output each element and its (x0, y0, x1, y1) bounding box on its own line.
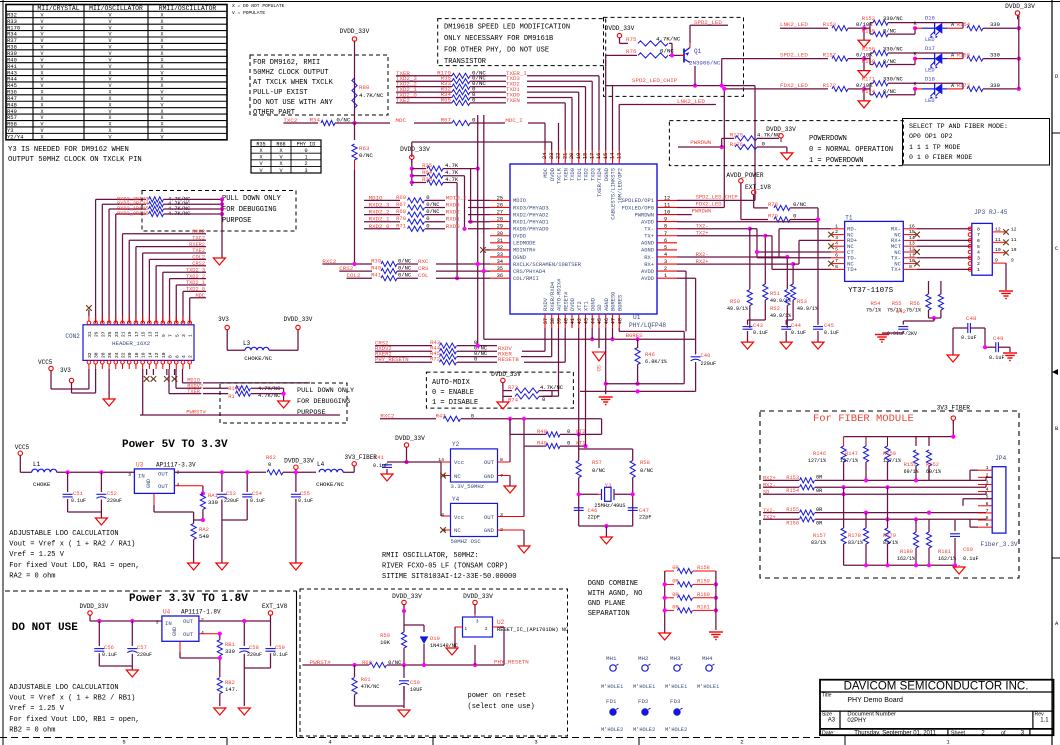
note box PULL DOWN ONLY 1 (142, 191, 296, 232)
svg-text:RA2: RA2 (199, 526, 209, 533)
svg-text:36: 36 (497, 273, 503, 279)
svg-text:CHOKE: CHOKE (33, 481, 51, 488)
svg-text:PURPOSE: PURPOSE (297, 409, 326, 417)
svg-text:AVDD_POWER: AVDD_POWER (726, 172, 763, 179)
pin 31 LEDMODE (490, 238, 536, 247)
ground left (659, 633, 671, 640)
svg-text:147.: 147. (225, 686, 238, 693)
resistor R154 330 (967, 26, 983, 31)
svg-text:DGND: DGND (513, 255, 526, 261)
svg-text:AP1117-3.3V: AP1117-3.3V (156, 462, 196, 469)
svg-text:D19: D19 (430, 635, 440, 642)
svg-text:330: 330 (208, 499, 218, 506)
svg-text:DVDD_33V: DVDD_33V (605, 25, 635, 32)
resistor R152 330/NC upper (864, 27, 870, 29)
svg-text:R70: R70 (396, 215, 406, 222)
pin 3 RD+ (831, 235, 858, 244)
svg-text:4: 4 (177, 482, 180, 488)
pin 4 (968, 250, 980, 256)
svg-text:22pF: 22pF (639, 515, 651, 521)
svg-text:DVDD_33V: DVDD_33V (340, 28, 370, 35)
capacitor C40 220uF (695, 339, 697, 354)
svg-text:LED: LED (925, 37, 935, 43)
svg-text:0: 0 (542, 396, 545, 403)
resistor RA2 549 (191, 523, 196, 539)
svg-text:RXDV: RXDV (543, 297, 549, 311)
x mark MDINTR# (480, 247, 486, 253)
svg-text:0R: 0R (672, 579, 679, 585)
svg-text:RXD0/PHYAD0: RXD0/PHYAD0 (513, 226, 549, 232)
wire pin47 BGRESG (612, 328, 614, 339)
pin 3 (181, 316, 187, 337)
svg-text:M'HOLE2: M'HOLE2 (601, 727, 623, 733)
svg-text:DAVICOM SEMICONDUCTOR INC.: DAVICOM SEMICONDUCTOR INC. (844, 681, 1029, 693)
svg-text:YT37-1107S: YT37-1107S (848, 287, 894, 295)
wire pin14 to SPD2_LED_CHIP (612, 86, 614, 150)
crystal circuit Y3 (574, 435, 654, 545)
wire Y4 gnd ground (497, 529, 524, 531)
pin 33 DGND (490, 252, 526, 261)
svg-text:25: 25 (497, 195, 503, 201)
rows CRS2 RXDV2 RXER2 PHY_RESETN (375, 339, 497, 348)
svg-text:ADJUSTABLE LDO CALCULATION: ADJUSTABLE LDO CALCULATION (9, 530, 118, 538)
wire to IC pin (468, 221, 490, 223)
svg-text:3: 3 (304, 168, 307, 174)
pin 47 BGRESG (611, 292, 617, 328)
svg-text:TXEN: TXEN (563, 168, 569, 181)
svg-text:10M/LED/OP2: 10M/LED/OP2 (617, 168, 623, 204)
svg-text:NC: NC (454, 527, 461, 534)
svg-text:3: 3 (835, 235, 838, 241)
svg-text:Fiber_3.3V: Fiber_3.3V (981, 541, 1018, 548)
op-amp U1 PHY/LQFP48 main IC (510, 164, 666, 329)
svg-text:Vref = 1.25 V: Vref = 1.25 V (9, 551, 64, 559)
svg-text:R61: R61 (361, 676, 372, 683)
pin 16 (141, 352, 147, 369)
resistor R46 6.8K (637, 339, 639, 348)
svg-text:7: 7 (168, 334, 174, 337)
resistor R80 (352, 78, 357, 108)
svg-text:C49: C49 (993, 335, 1004, 342)
svg-text:10K: 10K (380, 639, 391, 646)
svg-text:GND: GND (484, 527, 495, 534)
svg-text:U1: U1 (633, 314, 641, 321)
svg-text:8: 8 (835, 264, 838, 270)
svg-text:R151: R151 (904, 462, 917, 468)
svg-text:HEADER_16X2: HEADER_16X2 (112, 340, 151, 347)
svg-text:AGND: AGND (604, 298, 610, 311)
svg-text:1N4148/NC: 1N4148/NC (430, 643, 458, 649)
svg-text:2: 2 (977, 261, 980, 267)
svg-text:0 = ENABLE: 0 = ENABLE (432, 389, 474, 397)
svg-text:SELECT TP AND FIBER MODE:: SELECT TP AND FIBER MODE: (909, 123, 1008, 130)
svg-text:C56: C56 (104, 644, 114, 651)
svg-text:0R: 0R (816, 475, 823, 481)
pin 29 RXD0/PHYAD0 (490, 224, 549, 233)
svg-text:0/NC: 0/NC (640, 467, 654, 474)
svg-text:R155: R155 (862, 27, 875, 34)
pin 12 NC (894, 247, 920, 256)
svg-text:127/1%: 127/1% (883, 458, 901, 464)
svg-text:X: X (160, 109, 163, 115)
svg-text:C47: C47 (639, 507, 649, 514)
net TXD2_1 series resistor R32 (396, 86, 579, 150)
svg-text:37: 37 (543, 318, 549, 324)
svg-text:CON2: CON2 (65, 333, 80, 340)
pin 31 (87, 316, 93, 337)
svg-text:3: 3 (977, 255, 980, 261)
svg-text:R59: R59 (380, 632, 390, 639)
power DVDD_33V at R35 group (410, 155, 414, 159)
resistor R48 XT2 (509, 419, 511, 435)
svg-text:14: 14 (909, 235, 915, 241)
ground RB2 (214, 708, 226, 715)
wire PWRST# (142, 369, 144, 415)
svg-text:PHY_RESETN: PHY_RESETN (494, 659, 529, 666)
svg-text:R152: R152 (926, 462, 939, 468)
svg-text:6: 6 (664, 238, 667, 244)
svg-text:V: V (108, 64, 111, 70)
svg-text:DVDD_33V: DVDD_33V (1005, 3, 1035, 10)
capacitor C43 (748, 319, 766, 321)
power 3V3_FIBER fiber (951, 416, 955, 420)
pin 6 (978, 501, 992, 507)
svg-text:RXD1: RXD1 (446, 216, 460, 223)
svg-text:2: 2 (304, 161, 307, 167)
svg-text:TX-: TX- (644, 226, 654, 232)
svg-text:R157: R157 (823, 52, 836, 59)
pin 42 XT2 (577, 301, 583, 328)
wire to pin (527, 102, 565, 104)
svg-text:10: 10 (664, 210, 670, 216)
svg-text:R159: R159 (862, 58, 875, 65)
svg-text:X: X (108, 96, 111, 102)
svg-text:DVDD_33V: DVDD_33V (80, 603, 109, 610)
svg-text:Date:: Date: (822, 730, 835, 736)
capacitor C51 (67, 472, 69, 492)
svg-text:R180: R180 (900, 549, 913, 555)
resistor R160 (665, 597, 674, 599)
svg-text:Y4: Y4 (452, 496, 460, 503)
svg-text:SPDLED/OP1: SPDLED/OP1 (622, 198, 654, 204)
svg-text:X: X (160, 77, 163, 83)
svg-text:TD+: TD+ (847, 266, 858, 273)
svg-text:1: 1 (835, 223, 838, 229)
wire to IC pin (468, 214, 490, 216)
svg-text:0.1uF: 0.1uF (273, 652, 288, 658)
bottom resistors R157 R178 R179 83ohm (843, 487, 845, 528)
svg-text:330: 330 (990, 52, 1000, 59)
svg-text:0/NC: 0/NC (359, 152, 373, 159)
capacitor C54 (246, 472, 248, 492)
wires crystal (578, 478, 580, 527)
pin 28 (100, 352, 106, 369)
svg-text:X: X (160, 38, 163, 44)
svg-text:24: 24 (114, 352, 120, 358)
svg-text:0R: 0R (816, 521, 823, 527)
svg-text:1.1: 1.1 (1040, 718, 1049, 724)
svg-text:of: of (1001, 730, 1006, 736)
svg-text:R156: R156 (862, 45, 875, 52)
svg-text:MDINTR#: MDINTR# (513, 248, 536, 254)
pin 32 (87, 352, 93, 369)
net TXD2_0 series resistor R34 (396, 91, 572, 150)
resistor R159 0/NC lower (869, 59, 871, 65)
pin 21 TXEN (562, 150, 569, 181)
svg-text:75/1%: 75/1% (866, 308, 881, 314)
wires pins 12 11 10 (677, 199, 755, 201)
svg-text:14: 14 (610, 153, 616, 159)
svg-text:PWRDWN: PWRDWN (635, 212, 654, 218)
pull-up resistors R35 R64 R36 4.7K (410, 162, 490, 280)
svg-text:1: 1 (986, 465, 989, 471)
svg-text:GND: GND (484, 473, 495, 480)
net TXE2 series resistor R65 (396, 96, 565, 150)
svg-text:Size: Size (822, 711, 832, 717)
resistor R75 (638, 41, 668, 46)
ground reset (398, 710, 410, 717)
svg-text:X: X (160, 128, 163, 134)
pin 27 RXD2/PHYAD2 (490, 210, 549, 219)
svg-text:RESET_IC_(AP1701DW) NC: RESET_IC_(AP1701DW) NC (497, 627, 568, 633)
wire Y2 gnd ground (497, 475, 510, 477)
svg-text:R146: R146 (813, 451, 826, 457)
svg-text:35: 35 (497, 266, 503, 272)
pin 17 (134, 316, 140, 337)
capacitor C44 (786, 319, 793, 321)
svg-text:R74: R74 (508, 397, 519, 404)
pin 7 (968, 232, 980, 238)
svg-text:2: 2 (201, 617, 204, 623)
svg-text:0.1uF: 0.1uF (824, 330, 839, 336)
svg-text:X: X (160, 64, 163, 70)
resistor R51 (763, 284, 768, 300)
svg-text:DGND: DGND (604, 168, 610, 181)
svg-text:V: V (40, 19, 43, 25)
pin 2 (978, 472, 992, 478)
svg-text:R147: R147 (845, 451, 858, 457)
svg-text:X: X (160, 83, 163, 89)
svg-text:R172: R172 (823, 82, 836, 89)
svg-text:TXD1: TXD1 (577, 168, 583, 181)
pin 1 AVDD (641, 273, 677, 282)
svg-text:41: 41 (570, 318, 576, 324)
svg-text:R56: R56 (910, 300, 920, 307)
svg-text:RB1: RB1 (225, 641, 236, 648)
resistor RB2 147 (217, 678, 222, 694)
svg-text:XT1: XT1 (584, 301, 590, 311)
svg-text:OP0 OP1 OP2: OP0 OP1 OP2 (909, 133, 953, 140)
svg-text:RXC: RXC (418, 258, 429, 265)
diode D19 1N4148/NC (423, 625, 425, 632)
svg-text:3: 3 (156, 620, 159, 626)
svg-text:DVDD: DVDD (550, 168, 556, 181)
svg-text:AT TXCLK WHEN TXCLK: AT TXCLK WHEN TXCLK (253, 79, 334, 87)
power DVDD_33V reset2 (473, 600, 477, 604)
svg-text:45: 45 (597, 318, 603, 324)
wires JP4 (970, 469, 978, 471)
svg-text:R57: R57 (592, 459, 602, 466)
svg-text:24: 24 (542, 153, 548, 159)
svg-text:L4: L4 (317, 461, 325, 468)
svg-text:X: X (40, 102, 43, 108)
svg-text:21: 21 (562, 153, 568, 159)
pin 7 (168, 316, 174, 337)
ground (863, 89, 865, 101)
svg-text:11: 11 (909, 252, 915, 258)
svg-text:Q1: Q1 (694, 48, 702, 55)
svg-text:6: 6 (835, 252, 838, 258)
svg-text:RB2: RB2 (225, 679, 235, 686)
svg-text:X: X (40, 135, 43, 141)
svg-text:D17: D17 (925, 45, 935, 52)
power DVDD_33V osc (404, 443, 408, 447)
pin 38 RXER/RXD4 (550, 282, 556, 328)
svg-text:11: 11 (154, 331, 160, 337)
svg-text:25MHz/49US: 25MHz/49US (594, 503, 625, 509)
resistor R155 0/NC lower (869, 28, 871, 34)
resistors R158-R161 0R (665, 565, 716, 573)
svg-text:R51: R51 (770, 290, 781, 297)
svg-text:69/1%: 69/1% (926, 469, 941, 475)
svg-text:R41: R41 (371, 272, 382, 279)
svg-text:C50: C50 (410, 679, 420, 686)
svg-text:ONLY NECESSARY FOR DM9161B: ONLY NECESSARY FOR DM9161B (444, 35, 553, 43)
svg-text:V: V (160, 90, 163, 96)
svg-text:R181: R181 (938, 549, 951, 555)
svg-text:4: 4 (664, 252, 667, 258)
svg-text:LED: LED (925, 68, 935, 74)
svg-text:AUTO-MDIX: AUTO-MDIX (432, 379, 471, 387)
svg-text:DGND: DGND (590, 298, 596, 311)
svg-text:DO NOT USE WITH ANY: DO NOT USE WITH ANY (253, 99, 334, 107)
pin 11 (154, 316, 160, 337)
note box PULL DOWN ONLY 2 (220, 383, 347, 423)
svg-text:RMII OSCILLATOR, 50MHZ:: RMII OSCILLATOR, 50MHZ: (382, 552, 479, 560)
svg-text:C44: C44 (791, 322, 802, 329)
svg-text:8: 8 (977, 226, 980, 232)
pin 15 (141, 316, 147, 337)
svg-text:JP3 RJ-45: JP3 RJ-45 (974, 209, 1008, 216)
svg-text:V: V (40, 115, 43, 121)
svg-text:NC: NC (454, 473, 461, 480)
resistor R58 (632, 449, 634, 461)
power DVDD_33V reset1 (402, 600, 406, 604)
power DVDD_33V pwrdwn (779, 134, 783, 138)
pin 13 10M/LED/OP2 (616, 150, 623, 204)
svg-text:6: 6 (977, 238, 980, 244)
resistor R49 XT1 (523, 419, 525, 446)
resistor R53 (791, 284, 796, 300)
svg-text:C53: C53 (226, 490, 236, 497)
svg-text:R36: R36 (422, 176, 432, 183)
svg-text:2: 2 (664, 266, 667, 272)
power DVDD_33V LED rail (1015, 11, 1019, 15)
svg-text:MDC: MDC (543, 168, 549, 178)
svg-text:220uF: 220uF (224, 498, 239, 504)
wire bottom crystal ground (579, 525, 633, 527)
wire AGND rail (606, 383, 685, 385)
svg-text:R152: R152 (862, 15, 875, 22)
net TXD2_2 series resistor R33 (396, 80, 586, 150)
svg-text:5: 5 (977, 244, 980, 250)
resistor R174 0/NC lower (869, 89, 871, 95)
note box POWERDOWN (669, 121, 903, 166)
svg-text:R67: R67 (396, 201, 406, 208)
pin 43 XT1 (584, 301, 590, 328)
svg-text:PWRDWN: PWRDWN (690, 139, 711, 146)
svg-text:R153: R153 (823, 21, 836, 28)
pin 44 DGND (590, 298, 596, 328)
svg-text:9: 9 (909, 264, 912, 270)
svg-text:C54: C54 (252, 490, 263, 497)
svg-text:30: 30 (497, 231, 503, 237)
resistor R78 (754, 207, 768, 209)
svg-text:FD3: FD3 (670, 698, 681, 705)
pin 6 AGND (641, 238, 677, 247)
wire pin2 AVDD (677, 270, 686, 272)
svg-text:OUT: OUT (158, 471, 169, 478)
svg-text:R173: R173 (957, 82, 970, 89)
svg-text:40: 40 (563, 318, 569, 324)
svg-text:X: X (160, 57, 163, 63)
svg-text:AGND: AGND (641, 248, 654, 254)
pin 5 CT (831, 247, 854, 256)
wire pin44 DGND (591, 328, 593, 339)
svg-text:SPD2_LED_CHIP: SPD2_LED_CHIP (632, 77, 678, 84)
svg-text:For FIBER MODULE: For FIBER MODULE (813, 413, 914, 425)
wire DGND rail below IC (484, 338, 696, 340)
connector JP4 (981, 455, 1018, 548)
svg-text:power on reset: power on reset (468, 692, 527, 700)
svg-text:16: 16 (141, 352, 147, 358)
svg-text:IN: IN (165, 620, 172, 627)
pin 21 (121, 316, 127, 337)
wire collector to SPD2_LED (689, 43, 691, 48)
note box SELECT TP AND FIBER MODE (903, 119, 1050, 166)
svg-text:X = DO NOT POPULATE: X = DO NOT POPULATE (232, 3, 285, 9)
svg-text:10: 10 (995, 247, 1001, 253)
svg-text:TXC2: TXC2 (192, 235, 205, 241)
pin 12 SPDLED/OP1 (622, 195, 677, 204)
svg-text:EXT_1V8: EXT_1V8 (745, 184, 771, 191)
wire net TXD2_0 (182, 291, 184, 323)
svg-text:3V3_FIBER: 3V3_FIBER (937, 405, 971, 412)
svg-text:C43: C43 (753, 322, 763, 329)
svg-text:OUT: OUT (183, 618, 194, 625)
svg-text:R47: R47 (436, 412, 446, 419)
svg-text:R146: R146 (136, 211, 149, 217)
svg-text:17: 17 (589, 153, 595, 159)
pin 9 (992, 258, 1014, 290)
ground earth DGND (599, 396, 613, 398)
svg-text:X: X (160, 32, 163, 38)
resistor R76 (613, 54, 638, 56)
svg-text:L1: L1 (33, 461, 41, 468)
svg-text:6.8K/1%: 6.8K/1% (645, 359, 668, 365)
svg-text:3: 3 (128, 472, 131, 478)
svg-text:10UF: 10UF (410, 687, 422, 693)
svg-text:RXER2: RXER2 (189, 242, 205, 248)
svg-text:27: 27 (497, 210, 503, 216)
pin 27 (100, 316, 106, 337)
wire to IC pin (468, 207, 490, 209)
LED indicator rows (780, 15, 1021, 48)
svg-text:9: 9 (161, 334, 167, 337)
pin 8 TD+ (831, 264, 858, 273)
svg-text:R78: R78 (768, 201, 778, 208)
svg-text:MDC: MDC (195, 293, 205, 299)
